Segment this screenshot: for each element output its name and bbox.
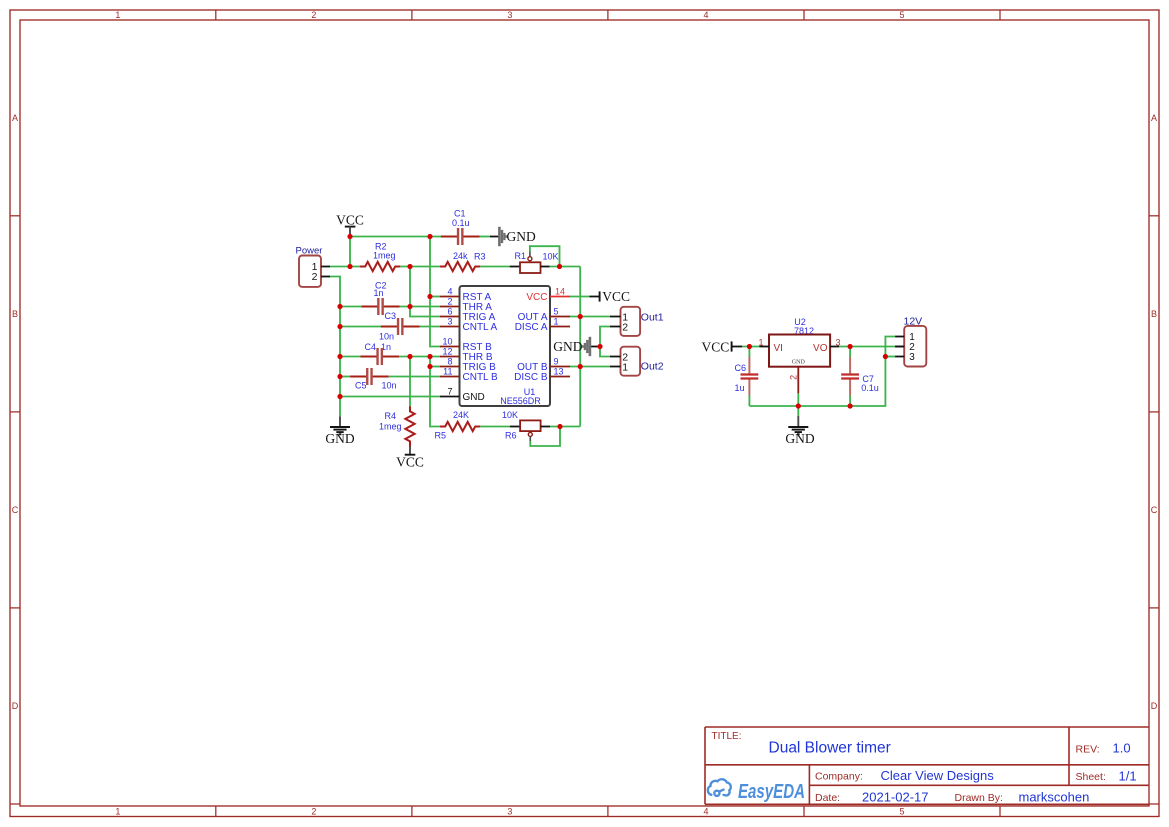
wire GND row — [340, 396, 440, 398]
wire R1 right to vertical — [550, 266, 581, 268]
svg-text:1: 1 — [758, 337, 763, 347]
svg-text:5: 5 — [899, 10, 904, 20]
svg-text:C: C — [1151, 505, 1158, 515]
svg-text:1: 1 — [115, 807, 120, 817]
ground symbol (left) — [325, 416, 354, 446]
svg-text:Company:: Company: — [815, 771, 863, 783]
svg-text:C6: C6 — [735, 363, 747, 373]
svg-text:GND: GND — [553, 339, 582, 354]
wire C3 to CNTL A pin — [420, 326, 441, 328]
junction rail / C7 — [848, 403, 853, 408]
svg-text:1: 1 — [115, 10, 120, 20]
svg-text:6: 6 — [447, 307, 452, 317]
svg-text:8: 8 — [447, 357, 452, 367]
wire C1 to GND flag — [480, 236, 500, 238]
wire pin14 to VCC flag — [570, 296, 600, 298]
capacitor C2 — [361, 280, 400, 315]
svg-text:VI: VI — [774, 343, 783, 354]
svg-text:13: 13 — [554, 367, 564, 377]
U1 pin 14 (VCC) — [526, 287, 570, 304]
U1 pin 3 (CNTL A) — [440, 317, 497, 334]
junction left rail / C4 — [337, 354, 342, 359]
svg-text:R1: R1 — [515, 251, 527, 261]
svg-text:2: 2 — [311, 807, 316, 817]
capacitor C6 — [735, 357, 759, 396]
svg-text:DISC B: DISC B — [514, 372, 548, 383]
connector Out2 — [610, 347, 664, 376]
svg-text:3: 3 — [507, 807, 512, 817]
junction top rail / vertical to RST A — [427, 234, 432, 239]
svg-text:11: 11 — [443, 367, 452, 377]
svg-text:EasyEDA: EasyEDA — [738, 780, 805, 803]
potentiometer R6 10K — [502, 410, 550, 441]
svg-text:1.0: 1.0 — [1113, 741, 1131, 756]
svg-text:VCC: VCC — [336, 213, 364, 228]
svg-text:VO: VO — [813, 343, 828, 354]
wire THR B to R4 — [409, 357, 411, 407]
wire 12V pin3 — [885, 356, 895, 358]
svg-text:C1: C1 — [454, 208, 466, 218]
U1 pin 4 (RST A) — [440, 287, 492, 304]
junction left rail / C3 — [337, 324, 342, 329]
GND net flag (between Out1/Out2) — [553, 337, 600, 356]
U1 pin 5 (OUT A) — [518, 307, 570, 324]
svg-text:3: 3 — [909, 352, 915, 363]
svg-text:CNTL A: CNTL A — [463, 322, 498, 333]
connector 12V — [895, 316, 926, 367]
svg-text:Dual Blower timer: Dual Blower timer — [769, 740, 891, 757]
wire RST A vertical — [430, 237, 440, 347]
svg-text:C4: C4 — [365, 342, 377, 352]
junction rail / 12V pin3 — [883, 354, 888, 359]
svg-text:1: 1 — [554, 317, 559, 327]
svg-text:GND: GND — [325, 431, 354, 446]
wire Power pin2 down left rail — [330, 277, 340, 417]
svg-text:7: 7 — [447, 387, 452, 397]
resistor R5 — [435, 410, 481, 441]
svg-text:Drawn By:: Drawn By: — [955, 792, 1003, 804]
wire R3 to R1 — [480, 266, 509, 268]
junction left rail / C2 — [337, 304, 342, 309]
junction RST A — [427, 294, 432, 299]
svg-text:9: 9 — [554, 357, 559, 367]
wire R6 wiper loop — [530, 427, 560, 447]
svg-text:TITLE:: TITLE: — [712, 731, 742, 742]
ground symbol (U2) — [785, 406, 814, 446]
wire VCC top rail — [350, 236, 447, 238]
resistor R2 — [360, 242, 400, 272]
wire C4 row left — [340, 356, 360, 358]
svg-text:14: 14 — [555, 287, 565, 297]
U1 pin 10 (RST B) — [440, 337, 492, 354]
svg-text:5: 5 — [554, 307, 559, 317]
junction OUT B / vertical — [578, 364, 583, 369]
svg-text:24k: 24k — [453, 251, 468, 261]
U2 pin 3 (VO) — [830, 337, 840, 347]
svg-text:1/1: 1/1 — [1119, 768, 1137, 783]
svg-text:1meg: 1meg — [373, 250, 396, 260]
connector Out1 — [610, 307, 664, 336]
junction U2 pin1 / C6 — [747, 344, 752, 349]
wire THR B vertical to R5 — [430, 357, 441, 427]
wire ground rail — [749, 357, 885, 407]
svg-text:3: 3 — [507, 10, 512, 20]
svg-text:CNTL B: CNTL B — [463, 372, 499, 383]
svg-text:GND: GND — [463, 392, 485, 403]
VCC net flag (below R4) — [396, 447, 424, 470]
svg-text:Out1: Out1 — [641, 312, 664, 324]
svg-text:R3: R3 — [474, 251, 486, 261]
svg-text:B: B — [1151, 309, 1157, 319]
wire R2 junction down to TRIG A — [410, 267, 440, 317]
wire C3 row left — [340, 326, 381, 328]
U1 pin 12 (THR B) — [440, 347, 493, 364]
wire R1 wiper loop — [530, 246, 560, 266]
svg-text:1: 1 — [622, 361, 628, 373]
wire C7 to rail — [849, 395, 851, 406]
svg-text:D: D — [1151, 701, 1158, 711]
VCC net flag (U2 input) — [702, 340, 732, 355]
wire Out1 pin2 to GND — [600, 327, 610, 357]
svg-text:2: 2 — [311, 10, 316, 20]
svg-text:3: 3 — [447, 317, 452, 327]
svg-text:1meg: 1meg — [379, 421, 402, 431]
svg-text:VCC: VCC — [526, 292, 547, 303]
svg-text:VCC: VCC — [602, 289, 630, 304]
junction TRIG B — [427, 364, 432, 369]
svg-text:1n: 1n — [374, 288, 384, 298]
svg-text:A: A — [1151, 113, 1157, 123]
junction R6 right / loop — [557, 424, 562, 429]
svg-text:GND: GND — [507, 229, 536, 244]
svg-text:A: A — [12, 113, 18, 123]
junction rail / U2 pin2 — [796, 403, 801, 408]
resistor R4 — [379, 406, 415, 446]
U1 pin 7 (GND) — [440, 387, 485, 404]
junction R2 right — [407, 264, 412, 269]
wire C5 to CNTL B pin — [389, 376, 440, 378]
wire R6 right — [550, 426, 580, 428]
svg-text:2: 2 — [447, 297, 452, 307]
IC U2 7812 — [758, 317, 840, 393]
svg-text:10K: 10K — [543, 251, 559, 261]
resistor R3 — [440, 251, 486, 271]
svg-text:4: 4 — [703, 807, 708, 817]
junction GND mid — [597, 344, 602, 349]
svg-text:Out2: Out2 — [641, 361, 664, 373]
U1 pin 13 (DISC B) — [514, 367, 570, 384]
svg-text:DISC A: DISC A — [515, 322, 548, 333]
svg-text:VCC: VCC — [396, 455, 424, 470]
junction left rail / C5 — [337, 374, 342, 379]
svg-text:10n: 10n — [382, 380, 397, 390]
svg-text:12: 12 — [442, 347, 452, 357]
svg-text:B: B — [12, 309, 18, 319]
capacitor C4 — [360, 342, 399, 365]
GND net flag (top, right-pointing) — [499, 227, 536, 246]
wire C2 to THR A pin — [400, 306, 440, 308]
svg-text:NE556DR: NE556DR — [500, 396, 541, 406]
wire C6 to rail — [748, 395, 750, 406]
VCC net flag (top left) — [336, 213, 364, 237]
svg-text:VCC: VCC — [702, 340, 730, 355]
wire 12V pin1 — [885, 337, 895, 357]
svg-text:Clear View Designs: Clear View Designs — [881, 768, 995, 783]
wire C4 to THR B pin — [399, 356, 440, 358]
U1 pin 9 (OUT B) — [517, 357, 570, 374]
svg-text:REV:: REV: — [1076, 744, 1100, 756]
wire junction to C6 — [748, 347, 750, 358]
svg-text:R5: R5 — [435, 431, 447, 441]
U2 pin 1 (VI) — [758, 337, 769, 347]
wire TRIG B stub join — [430, 366, 440, 368]
svg-text:10: 10 — [442, 337, 452, 347]
svg-text:4: 4 — [447, 287, 452, 297]
svg-text:C: C — [12, 505, 19, 515]
svg-text:2: 2 — [312, 271, 318, 283]
junction R1 right / loop — [557, 264, 562, 269]
svg-text:24K: 24K — [453, 410, 469, 420]
junction pin1/VCC — [347, 264, 352, 269]
svg-text:D: D — [12, 701, 19, 711]
capacitor C5 — [350, 368, 396, 390]
junction OUT A / vertical — [578, 314, 583, 319]
wire R2 to R3 — [400, 266, 440, 268]
wire VCC flag to U2 pin1 — [732, 346, 760, 348]
wire U2 pin3 to 12V pin2 — [839, 346, 904, 348]
IC U1 NE556DR — [440, 286, 570, 406]
junction C4 row / vertical C — [427, 354, 432, 359]
wire OUT B to Out2 — [570, 366, 610, 368]
svg-text:GND: GND — [792, 359, 806, 365]
junction C2 row / vertical A — [407, 304, 412, 309]
svg-text:markscohen: markscohen — [1019, 790, 1090, 805]
svg-text:Sheet:: Sheet: — [1076, 771, 1106, 783]
svg-text:2: 2 — [622, 321, 628, 333]
wire OUT A to Out1 — [570, 316, 610, 318]
junction left rail / GND row — [337, 394, 342, 399]
svg-text:0.1u: 0.1u — [861, 383, 879, 393]
svg-text:10n: 10n — [379, 332, 394, 342]
wire OUT A / OUT B vertical — [579, 267, 581, 427]
svg-text:R6: R6 — [505, 431, 517, 441]
wire U2 pin2 to rail — [797, 393, 799, 406]
svg-text:GND: GND — [785, 431, 814, 446]
wire Power pin1 to R2 — [330, 266, 360, 268]
wire RST A stub join — [430, 296, 440, 298]
wire junction to C7 — [849, 347, 851, 358]
potentiometer R1 10K — [510, 251, 559, 273]
svg-text:5: 5 — [899, 807, 904, 817]
svg-text:C3: C3 — [385, 311, 397, 321]
capacitor C7 — [841, 357, 879, 396]
svg-text:2: 2 — [789, 375, 799, 380]
connector P1 Power — [296, 246, 331, 287]
junction top rail / VCC stem — [347, 234, 352, 239]
U1 pin 1 (DISC A) — [515, 317, 570, 334]
svg-text:Date:: Date: — [815, 792, 840, 804]
wire C5 row left — [340, 376, 350, 378]
svg-text:10K: 10K — [502, 410, 518, 420]
U1 pin 11 (CNTL B) — [440, 367, 498, 384]
wire R5 to R6 — [480, 426, 510, 428]
U1 pin 8 (TRIG B) — [440, 357, 496, 374]
svg-text:R4: R4 — [385, 411, 397, 421]
capacitor C3 — [379, 311, 420, 342]
junction C4 row / R4 branch — [407, 354, 412, 359]
svg-text:4: 4 — [703, 10, 708, 20]
capacitor C1 — [441, 208, 480, 245]
VCC net flag (pin 14) — [600, 289, 630, 304]
svg-text:C5: C5 — [355, 380, 367, 390]
junction U2 pin3 / C7 — [848, 344, 853, 349]
svg-text:2021-02-17: 2021-02-17 — [862, 790, 929, 805]
wire C2 row left — [340, 306, 361, 308]
svg-text:1u: 1u — [735, 383, 745, 393]
U1 pin 2 (THR A) — [440, 297, 492, 314]
svg-text:0.1u: 0.1u — [452, 218, 470, 228]
U1 pin 6 (TRIG A) — [440, 307, 496, 324]
U2 pin 2 (GND) — [789, 367, 799, 394]
wire VCC stem to pin1 row — [349, 237, 351, 267]
